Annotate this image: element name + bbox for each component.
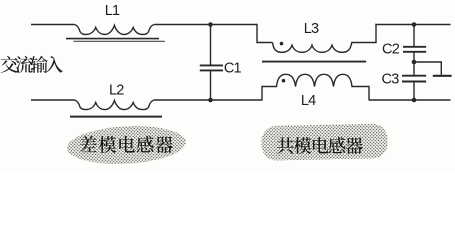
inductor L2 core line <box>70 116 162 118</box>
capacitor C3 top lead <box>413 62 415 75</box>
node: bottom right junction <box>412 98 417 103</box>
svg-text:L3: L3 <box>304 21 319 37</box>
svg-text:L2: L2 <box>109 83 124 99</box>
capacitor C1 plate 2 <box>200 69 223 71</box>
wire: mid node to ground <box>414 62 441 75</box>
inductor L1 winding <box>75 25 155 35</box>
common-mode choke core line <box>262 61 366 63</box>
inductor L4 winding with entry and exit steps <box>211 74 370 100</box>
svg-text:C2: C2 <box>382 42 400 58</box>
inductor L1 core line 1 <box>66 38 159 40</box>
svg-text:C3: C3 <box>382 72 400 88</box>
node: top right junction <box>412 22 417 27</box>
ground bar <box>433 75 452 77</box>
inductor L2 winding <box>75 100 155 110</box>
capacitor C1 plate 1 <box>200 64 223 66</box>
capacitor C2 top lead <box>413 25 415 47</box>
wire: AC input top lead <box>31 24 75 26</box>
wire: top rail right <box>375 24 450 26</box>
node: C1 top junction <box>208 22 213 27</box>
svg-text:C1: C1 <box>224 61 242 77</box>
highlight blob: common-mode label <box>261 123 388 160</box>
capacitor C2 bottom lead <box>413 52 415 62</box>
capacitor C3 plate 1 <box>402 75 426 77</box>
polarity dot L3 <box>280 42 284 46</box>
wire: AC input bottom lead <box>31 99 75 101</box>
label: differential-mode inductor (Chinese) <box>80 136 173 153</box>
svg-text:L4: L4 <box>301 93 316 109</box>
svg-text:L1: L1 <box>105 3 120 19</box>
capacitor C1 bottom lead <box>210 71 212 100</box>
wire: step down into L3 <box>257 24 273 43</box>
highlight blob: differential-mode label <box>66 123 187 167</box>
capacitor C3 bottom lead <box>413 82 415 100</box>
capacitor C1 top lead <box>210 25 212 65</box>
capacitor C2 plate 2 <box>403 51 426 53</box>
wire: bottom rail L2 to C1 node <box>154 99 210 101</box>
inductor L1 core line 2 <box>74 40 166 42</box>
wire: bottom rail right <box>369 99 451 101</box>
node: C2/C3 mid junction <box>412 60 417 65</box>
polarity dot L4 <box>282 79 286 83</box>
node: C1 bottom junction <box>208 98 213 103</box>
inductor L3 winding <box>273 24 377 53</box>
capacitor C2 plate 1 <box>403 46 426 48</box>
wire: top rail L1 to C1 node to L3 step <box>154 24 257 26</box>
capacitor C3 plate 2 <box>402 81 426 83</box>
label: common-mode inductor (Chinese) <box>277 137 363 154</box>
label: AC input (Chinese) <box>1 56 63 73</box>
